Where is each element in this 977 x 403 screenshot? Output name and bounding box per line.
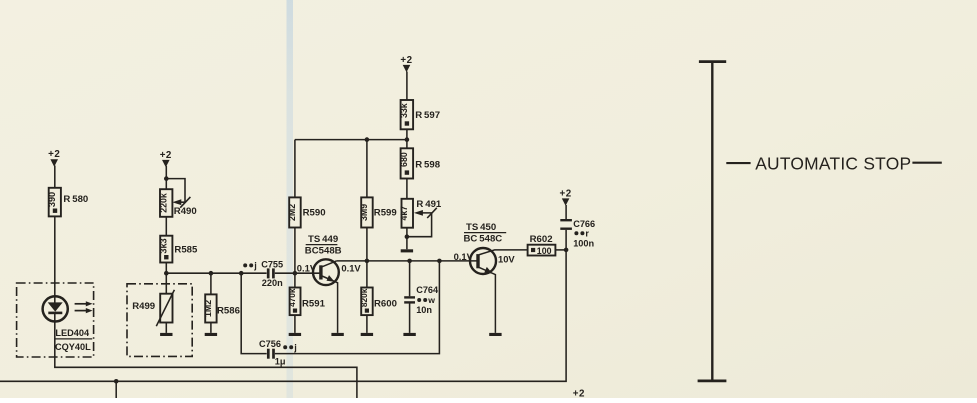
svg-text:10V: 10V bbox=[498, 254, 515, 265]
svg-text:j: j bbox=[293, 342, 297, 352]
svg-text:+2: +2 bbox=[573, 388, 585, 398]
svg-text:+2: +2 bbox=[48, 149, 60, 160]
svg-text:1M2: 1M2 bbox=[203, 300, 213, 317]
svg-text:R 597: R 597 bbox=[415, 110, 440, 121]
svg-text:C766: C766 bbox=[573, 219, 595, 229]
svg-text:3M9: 3M9 bbox=[359, 204, 369, 221]
svg-text:+2: +2 bbox=[160, 150, 172, 161]
svg-text:R490: R490 bbox=[174, 206, 197, 217]
svg-text:w: w bbox=[427, 295, 435, 305]
svg-text:+2: +2 bbox=[400, 55, 412, 66]
svg-text:3k3: 3k3 bbox=[159, 238, 169, 253]
svg-text:AUTOMATIC STOP: AUTOMATIC STOP bbox=[755, 154, 911, 174]
svg-text:0.1V: 0.1V bbox=[454, 251, 474, 262]
svg-text:4k7: 4k7 bbox=[399, 206, 409, 221]
svg-text:LED404: LED404 bbox=[55, 328, 90, 338]
svg-text:R590: R590 bbox=[303, 208, 326, 219]
svg-text:470k: 470k bbox=[287, 288, 297, 307]
svg-text:33k: 33k bbox=[399, 103, 409, 118]
svg-text:C755: C755 bbox=[261, 260, 283, 270]
svg-text:R 598: R 598 bbox=[415, 159, 441, 170]
svg-text:TS 450: TS 450 bbox=[466, 222, 496, 233]
svg-text:680: 680 bbox=[399, 152, 409, 167]
svg-text:j: j bbox=[253, 260, 257, 270]
svg-text:10n: 10n bbox=[416, 305, 432, 315]
svg-text:R599: R599 bbox=[374, 208, 397, 219]
svg-text:R600: R600 bbox=[374, 299, 397, 310]
svg-text:2M2: 2M2 bbox=[287, 204, 297, 221]
svg-text:390: 390 bbox=[47, 192, 57, 207]
svg-text:+2: +2 bbox=[560, 188, 572, 199]
svg-text:R585: R585 bbox=[174, 245, 198, 256]
svg-text:C764: C764 bbox=[416, 285, 439, 295]
svg-text:R 580: R 580 bbox=[63, 194, 88, 205]
svg-text:1μ: 1μ bbox=[275, 356, 286, 366]
svg-text:100: 100 bbox=[537, 246, 552, 256]
svg-text:820k: 820k bbox=[359, 288, 369, 307]
svg-text:0.1V: 0.1V bbox=[341, 263, 361, 274]
svg-text:r: r bbox=[585, 228, 589, 238]
svg-text:R586: R586 bbox=[217, 305, 240, 316]
svg-text:220k: 220k bbox=[158, 193, 168, 213]
svg-text:R499: R499 bbox=[132, 301, 155, 312]
svg-text:C756: C756 bbox=[259, 339, 281, 349]
svg-text:R602: R602 bbox=[530, 234, 553, 245]
svg-text:0.1V: 0.1V bbox=[297, 263, 317, 274]
svg-text:R 491: R 491 bbox=[416, 199, 442, 210]
svg-text:BC 548C: BC 548C bbox=[464, 234, 503, 245]
svg-text:100n: 100n bbox=[573, 239, 594, 249]
svg-text:TS 449: TS 449 bbox=[308, 234, 338, 245]
svg-text:CQY40L: CQY40L bbox=[55, 342, 91, 352]
svg-text:220n: 220n bbox=[262, 278, 283, 288]
svg-text:BC548B: BC548B bbox=[305, 246, 342, 257]
svg-text:R591: R591 bbox=[302, 299, 326, 310]
